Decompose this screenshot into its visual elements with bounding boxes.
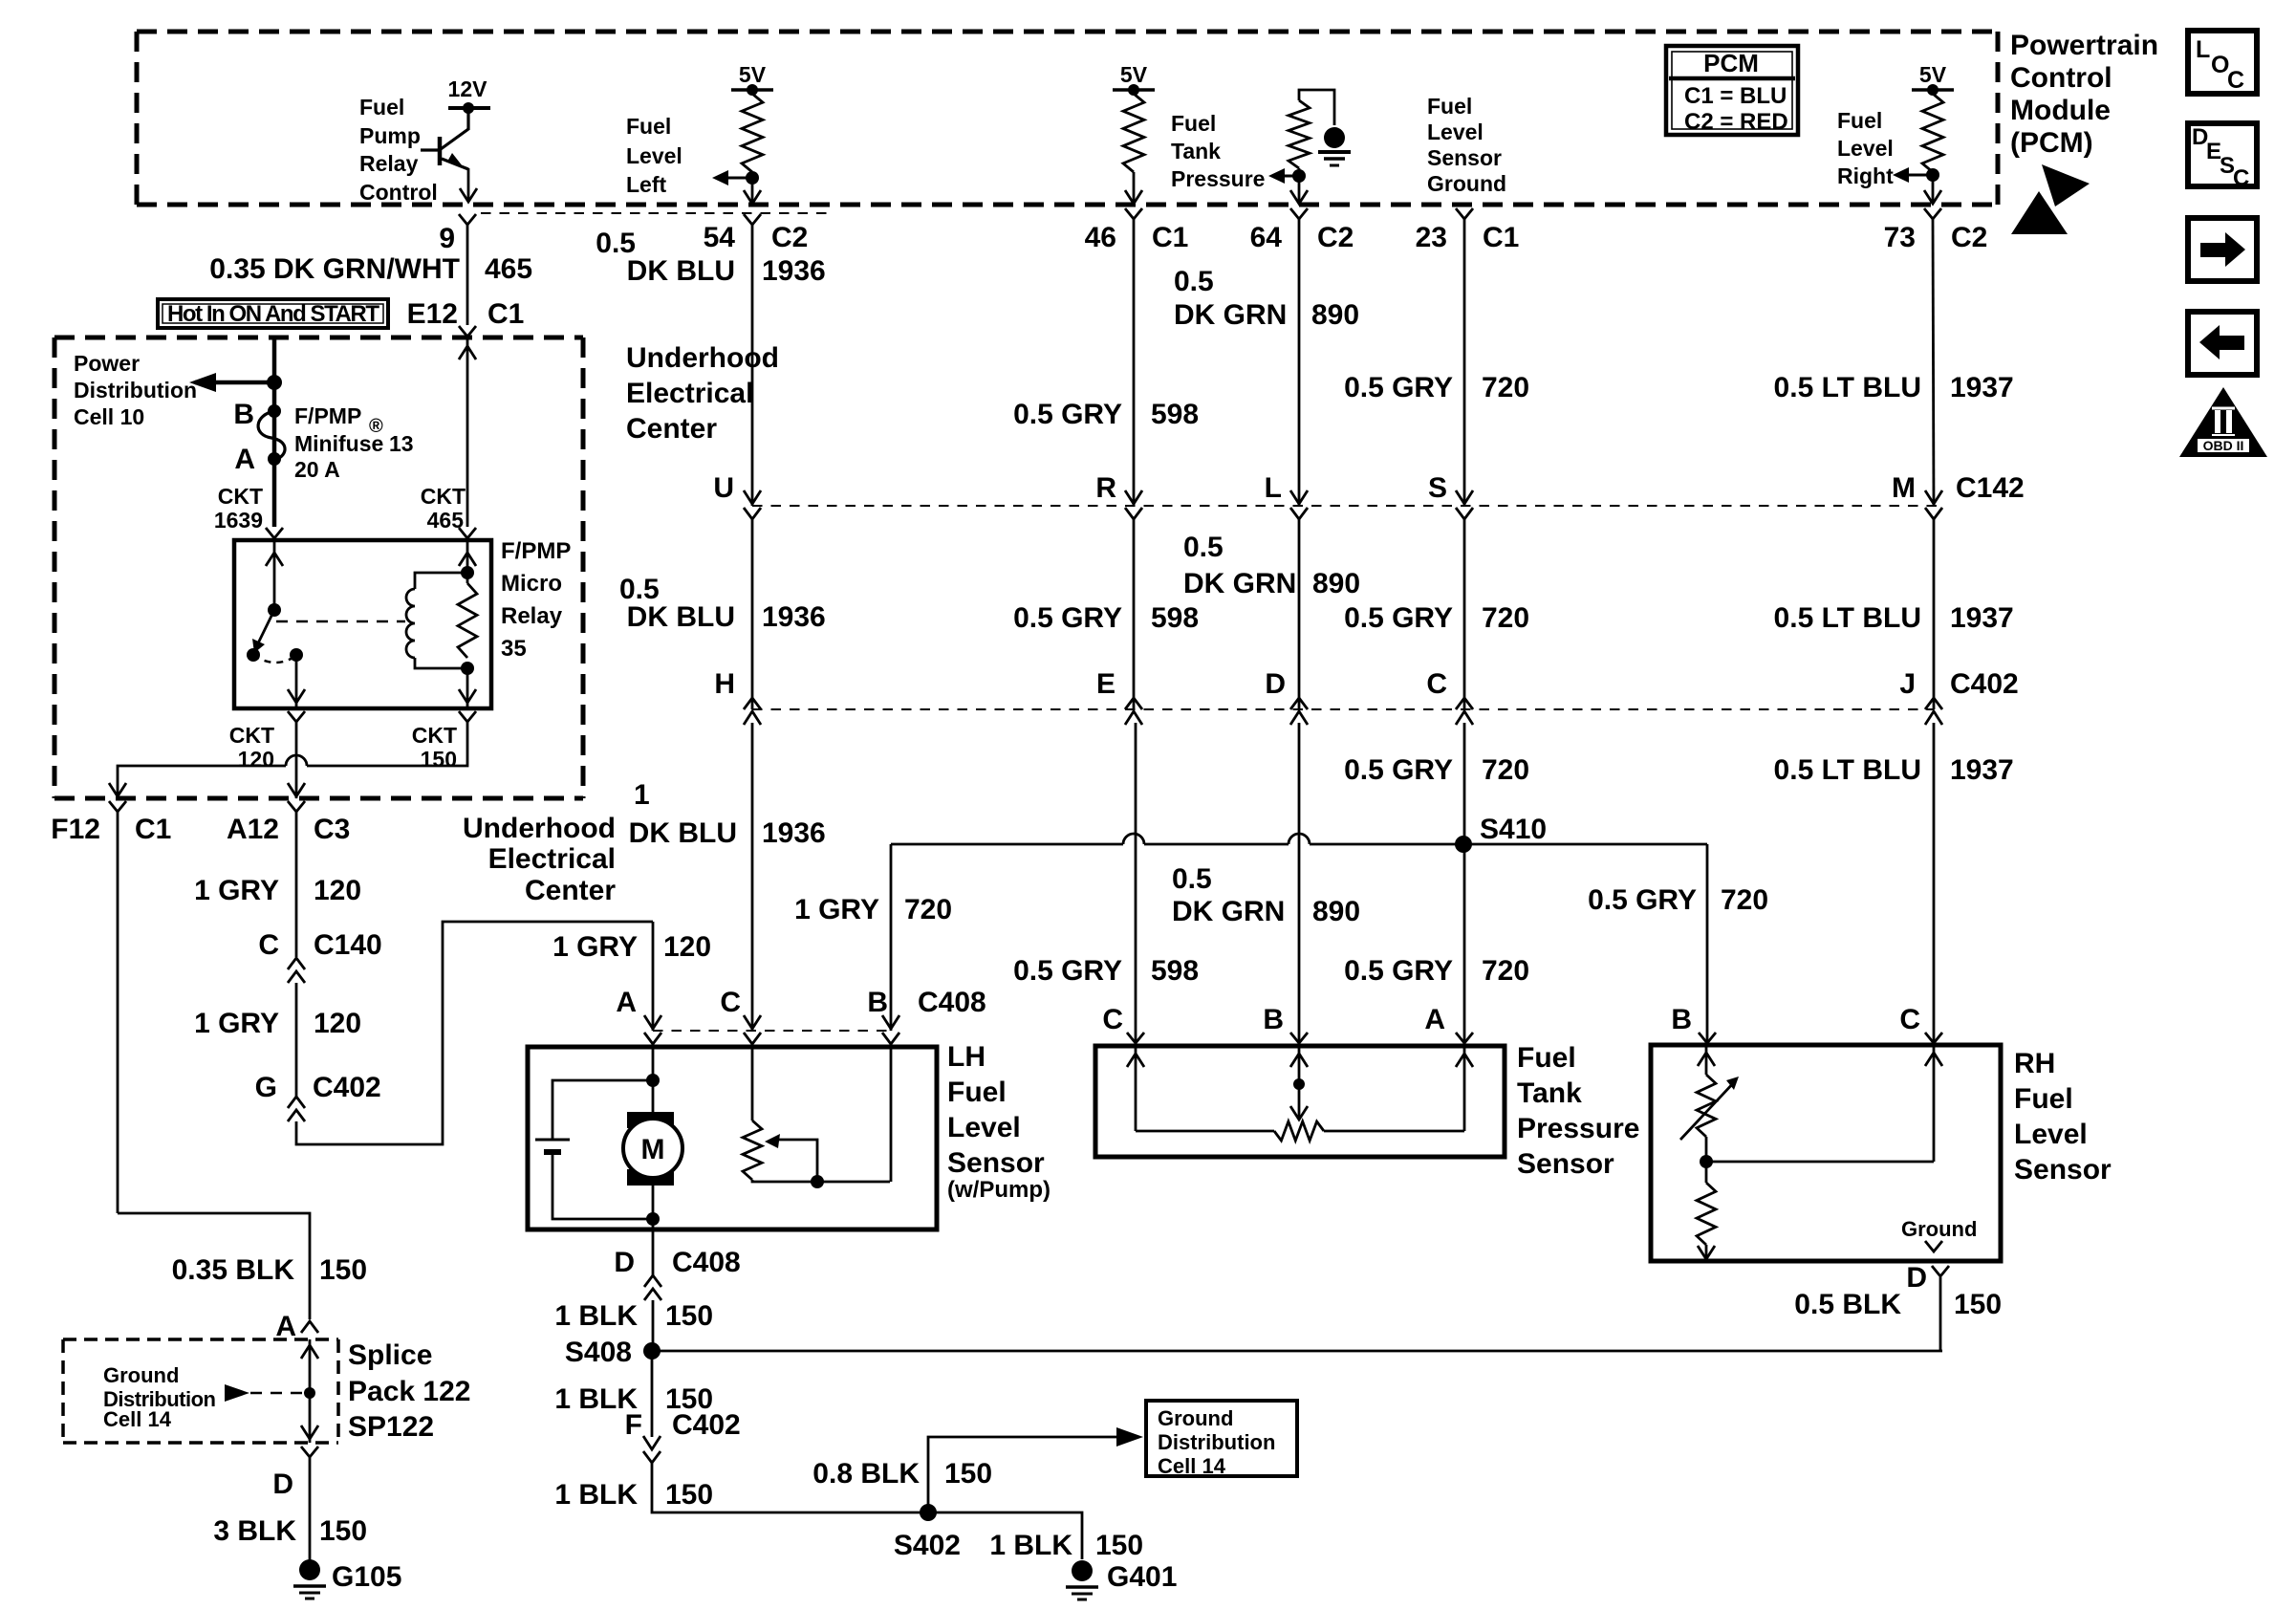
svg-text:54: 54: [704, 222, 736, 253]
svg-text:Ground: Ground: [103, 1363, 179, 1387]
svg-text:0.35 BLK: 0.35 BLK: [172, 1254, 295, 1286]
svg-text:5V: 5V: [739, 62, 767, 87]
svg-text:Cell 10: Cell 10: [74, 404, 144, 429]
svg-text:C: C: [2227, 67, 2244, 94]
svg-text:Sensor: Sensor: [1517, 1148, 1614, 1180]
svg-text:F/PMP: F/PMP: [501, 538, 571, 564]
svg-text:B: B: [233, 399, 254, 430]
svg-text:598: 598: [1151, 602, 1199, 634]
svg-text:S: S: [1428, 472, 1447, 504]
svg-text:B: B: [1671, 1004, 1692, 1035]
svg-text:L: L: [2196, 36, 2210, 63]
svg-text:Pressure: Pressure: [1171, 166, 1265, 191]
svg-text:890: 890: [1312, 896, 1360, 927]
svg-text:720: 720: [1482, 372, 1529, 403]
svg-text:1937: 1937: [1950, 372, 2014, 403]
svg-text:0.5 LT BLU: 0.5 LT BLU: [1774, 372, 1921, 403]
svg-text:C1: C1: [135, 814, 171, 845]
svg-text:C1 = BLU: C1 = BLU: [1684, 83, 1787, 109]
svg-text:1 GRY: 1 GRY: [552, 931, 638, 963]
svg-text:J: J: [1899, 668, 1916, 700]
svg-text:C142: C142: [1956, 472, 2025, 504]
svg-text:13: 13: [389, 431, 414, 456]
svg-text:0.5 GRY: 0.5 GRY: [1344, 754, 1453, 786]
svg-text:Hot In ON And START: Hot In ON And START: [167, 301, 379, 327]
svg-text:Cell 14: Cell 14: [1158, 1454, 1226, 1478]
svg-text:Level: Level: [626, 143, 682, 168]
svg-text:C: C: [1426, 668, 1447, 700]
svg-text:1639: 1639: [214, 508, 263, 533]
svg-text:H: H: [714, 668, 735, 700]
svg-text:F/PMP: F/PMP: [294, 403, 361, 428]
svg-text:Control: Control: [359, 180, 438, 205]
svg-text:Electrical: Electrical: [488, 843, 616, 875]
svg-text:120: 120: [314, 875, 361, 906]
svg-text:DK GRN: DK GRN: [1174, 299, 1287, 331]
svg-text:F12: F12: [51, 814, 100, 845]
svg-text:598: 598: [1151, 399, 1199, 430]
svg-text:A: A: [275, 1311, 296, 1342]
svg-text:20 A: 20 A: [294, 457, 340, 482]
svg-text:E12: E12: [407, 298, 458, 330]
svg-text:C1: C1: [1483, 222, 1519, 253]
svg-text:C2: C2: [1951, 222, 1987, 253]
svg-text:890: 890: [1311, 299, 1359, 331]
svg-text:Underhood: Underhood: [463, 813, 616, 844]
svg-text:0.8 BLK: 0.8 BLK: [812, 1458, 920, 1490]
svg-text:CKT: CKT: [218, 484, 263, 509]
svg-text:Distribution: Distribution: [1158, 1430, 1275, 1454]
svg-text:Tank: Tank: [1517, 1077, 1582, 1109]
svg-text:0.5 GRY: 0.5 GRY: [1344, 602, 1453, 634]
svg-text:0.35 DK GRN/WHT: 0.35 DK GRN/WHT: [209, 253, 460, 285]
svg-text:Module: Module: [2010, 95, 2111, 126]
svg-text:C408: C408: [918, 987, 986, 1018]
svg-text:1: 1: [634, 779, 650, 811]
svg-text:Fuel: Fuel: [947, 1077, 1007, 1108]
svg-text:C402: C402: [313, 1072, 381, 1103]
svg-text:46: 46: [1085, 222, 1116, 253]
svg-text:A12: A12: [227, 814, 279, 845]
svg-text:Relay: Relay: [359, 151, 419, 176]
svg-text:Left: Left: [626, 172, 667, 197]
svg-text:150: 150: [319, 1254, 367, 1286]
svg-text:720: 720: [1482, 955, 1529, 987]
svg-text:Tank: Tank: [1171, 139, 1221, 163]
svg-text:720: 720: [1721, 884, 1768, 916]
svg-text:Fuel: Fuel: [1837, 108, 1882, 133]
svg-text:DK GRN: DK GRN: [1172, 896, 1285, 927]
svg-text:Ground: Ground: [1427, 171, 1506, 196]
svg-text:(w/Pump): (w/Pump): [947, 1177, 1051, 1203]
svg-text:1 BLK: 1 BLK: [554, 1479, 638, 1511]
svg-text:9: 9: [439, 223, 455, 254]
svg-text:150: 150: [944, 1458, 992, 1490]
svg-text:0.5 GRY: 0.5 GRY: [1013, 399, 1122, 430]
svg-text:RH: RH: [2014, 1048, 2055, 1079]
svg-text:G401: G401: [1107, 1561, 1177, 1593]
svg-text:1937: 1937: [1950, 754, 2014, 786]
svg-text:PCM: PCM: [1703, 49, 1759, 77]
svg-text:D: D: [272, 1469, 293, 1500]
svg-text:Pack 122: Pack 122: [348, 1376, 470, 1407]
svg-text:0.5 GRY: 0.5 GRY: [1013, 955, 1122, 987]
svg-text:SP122: SP122: [348, 1411, 434, 1443]
svg-text:CKT: CKT: [229, 723, 274, 748]
svg-text:5V: 5V: [1919, 62, 1947, 87]
svg-text:CKT: CKT: [412, 723, 457, 748]
svg-text:0.5: 0.5: [1172, 863, 1212, 895]
svg-text:R: R: [1095, 472, 1116, 504]
svg-text:C2: C2: [771, 222, 808, 253]
svg-text:73: 73: [1884, 222, 1916, 253]
svg-text:Micro: Micro: [501, 571, 562, 597]
svg-text:CKT: CKT: [421, 484, 466, 509]
svg-text:Sensor: Sensor: [1427, 145, 1502, 170]
svg-text:C2 = RED: C2 = RED: [1684, 109, 1788, 135]
svg-text:C1: C1: [1152, 222, 1188, 253]
svg-text:C402: C402: [1950, 668, 2019, 700]
svg-text:Center: Center: [626, 413, 717, 445]
svg-text:F: F: [625, 1409, 642, 1441]
svg-text:Pressure: Pressure: [1517, 1113, 1639, 1144]
svg-text:Cell 14: Cell 14: [103, 1407, 172, 1431]
svg-text:Fuel: Fuel: [626, 114, 671, 139]
svg-text:150: 150: [319, 1515, 367, 1547]
svg-text:Fuel: Fuel: [1517, 1042, 1576, 1074]
svg-text:DK GRN: DK GRN: [1183, 568, 1296, 599]
svg-text:Fuel: Fuel: [2014, 1083, 2073, 1115]
svg-text:A: A: [234, 444, 255, 475]
svg-text:C: C: [720, 987, 741, 1018]
svg-text:Level: Level: [1837, 136, 1894, 161]
svg-text:Center: Center: [525, 875, 616, 906]
svg-text:Distribution: Distribution: [74, 378, 197, 402]
svg-text:Underhood: Underhood: [626, 342, 779, 374]
svg-text:Electrical: Electrical: [626, 378, 753, 409]
svg-text:M: M: [641, 1134, 665, 1165]
svg-text:Level: Level: [2014, 1119, 2088, 1150]
svg-text:Sensor: Sensor: [2014, 1154, 2112, 1186]
svg-text:1 BLK: 1 BLK: [554, 1300, 638, 1332]
svg-text:D: D: [614, 1247, 635, 1278]
svg-text:DK BLU: DK BLU: [627, 255, 735, 287]
svg-text:35: 35: [501, 636, 527, 662]
svg-text:Level: Level: [1427, 120, 1484, 144]
svg-text:465: 465: [485, 253, 532, 285]
svg-text:S402: S402: [894, 1530, 961, 1561]
svg-text:1 GRY: 1 GRY: [194, 1008, 279, 1039]
svg-text:L: L: [1265, 472, 1282, 504]
svg-text:720: 720: [904, 894, 952, 925]
svg-text:0.5: 0.5: [1183, 532, 1224, 563]
svg-text:D: D: [1906, 1262, 1927, 1294]
svg-text:C: C: [2233, 165, 2249, 191]
svg-text:Ground: Ground: [1901, 1217, 1977, 1241]
svg-text:C3: C3: [314, 814, 350, 845]
svg-text:Powertrain: Powertrain: [2010, 30, 2158, 61]
svg-text:1936: 1936: [762, 817, 826, 849]
svg-text:0.5 GRY: 0.5 GRY: [1588, 884, 1697, 916]
svg-text:0.5 BLK: 0.5 BLK: [1794, 1289, 1901, 1320]
svg-text:B: B: [867, 987, 888, 1018]
svg-text:Power: Power: [74, 351, 140, 376]
svg-text:C: C: [1102, 1004, 1123, 1035]
svg-text:1 GRY: 1 GRY: [794, 894, 879, 925]
svg-text:150: 150: [1954, 1289, 2002, 1320]
svg-text:150: 150: [665, 1300, 713, 1332]
svg-text:OBD II: OBD II: [2203, 438, 2244, 453]
svg-text:720: 720: [1482, 754, 1529, 786]
svg-text:E: E: [1096, 668, 1116, 700]
svg-text:720: 720: [1482, 602, 1529, 634]
svg-text:150: 150: [1095, 1530, 1143, 1561]
svg-text:S410: S410: [1480, 814, 1547, 845]
svg-text:120: 120: [238, 747, 274, 772]
svg-text:890: 890: [1312, 568, 1360, 599]
svg-text:Fuel: Fuel: [359, 95, 404, 120]
svg-text:C: C: [1899, 1004, 1920, 1035]
svg-text:LH: LH: [947, 1041, 986, 1073]
svg-text:0.5: 0.5: [1174, 266, 1214, 297]
svg-text:Pump: Pump: [359, 123, 421, 148]
svg-text:C2: C2: [1317, 222, 1354, 253]
svg-text:120: 120: [663, 931, 711, 963]
svg-text:C: C: [258, 929, 279, 961]
svg-text:0.5 GRY: 0.5 GRY: [1013, 602, 1122, 634]
svg-text:598: 598: [1151, 955, 1199, 987]
svg-text:A: A: [1424, 1004, 1445, 1035]
svg-text:G105: G105: [332, 1561, 401, 1593]
svg-text:0.5 GRY: 0.5 GRY: [1344, 955, 1453, 987]
svg-text:0.5 GRY: 0.5 GRY: [1344, 372, 1453, 403]
svg-text:150: 150: [665, 1479, 713, 1511]
svg-text:C402: C402: [672, 1409, 741, 1441]
svg-text:Sensor: Sensor: [947, 1147, 1045, 1179]
svg-text:Fuel: Fuel: [1427, 94, 1472, 119]
svg-text:®: ®: [369, 416, 383, 437]
svg-text:C408: C408: [672, 1247, 741, 1278]
svg-text:C1: C1: [487, 298, 524, 330]
svg-text:A: A: [616, 987, 637, 1018]
svg-text:S408: S408: [565, 1337, 632, 1368]
svg-text:D: D: [1265, 668, 1286, 700]
svg-text:1936: 1936: [762, 601, 826, 633]
svg-text:1936: 1936: [762, 255, 826, 287]
svg-text:23: 23: [1416, 222, 1447, 253]
svg-text:120: 120: [314, 1008, 361, 1039]
svg-text:0.5 LT BLU: 0.5 LT BLU: [1774, 602, 1921, 634]
svg-text:Fuel: Fuel: [1171, 111, 1216, 136]
svg-text:Level: Level: [947, 1112, 1021, 1143]
svg-text:Relay: Relay: [501, 603, 563, 629]
svg-text:150: 150: [421, 747, 457, 772]
svg-text:0.5 LT BLU: 0.5 LT BLU: [1774, 754, 1921, 786]
svg-text:Right: Right: [1837, 163, 1894, 188]
svg-text:DK BLU: DK BLU: [629, 817, 737, 849]
svg-text:Ground: Ground: [1158, 1406, 1233, 1430]
svg-text:12V: 12V: [448, 76, 488, 101]
svg-text:DK BLU: DK BLU: [627, 601, 735, 633]
svg-text:(PCM): (PCM): [2010, 127, 2093, 159]
svg-text:M: M: [1892, 472, 1916, 504]
svg-text:1 BLK: 1 BLK: [989, 1530, 1072, 1561]
svg-text:C140: C140: [314, 929, 382, 961]
svg-text:Splice: Splice: [348, 1339, 432, 1371]
svg-text:G: G: [255, 1072, 277, 1103]
svg-text:B: B: [1263, 1004, 1284, 1035]
svg-text:64: 64: [1250, 222, 1283, 253]
svg-text:1 GRY: 1 GRY: [194, 875, 279, 906]
svg-text:3 BLK: 3 BLK: [213, 1515, 296, 1547]
svg-text:1937: 1937: [1950, 602, 2014, 634]
svg-text:U: U: [713, 472, 734, 504]
svg-text:5V: 5V: [1120, 62, 1148, 87]
svg-text:Control: Control: [2010, 62, 2112, 94]
